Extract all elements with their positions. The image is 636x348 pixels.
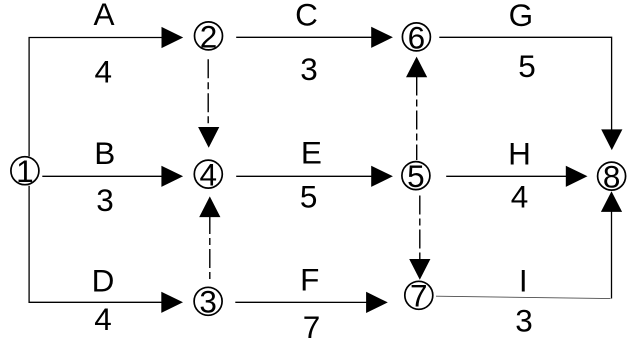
- svg-text:7: 7: [410, 278, 428, 314]
- svg-text:2: 2: [200, 18, 218, 54]
- svg-text:E: E: [301, 135, 322, 171]
- svg-text:B: B: [94, 135, 115, 171]
- svg-text:4: 4: [511, 179, 529, 215]
- svg-text:6: 6: [408, 19, 426, 55]
- svg-text:H: H: [508, 135, 531, 171]
- svg-text:3: 3: [300, 51, 318, 87]
- svg-text:D: D: [92, 263, 115, 299]
- svg-text:3: 3: [96, 182, 114, 218]
- svg-text:8: 8: [603, 159, 621, 195]
- svg-text:A: A: [93, 0, 114, 32]
- svg-text:F: F: [300, 261, 319, 297]
- svg-text:4: 4: [200, 157, 218, 193]
- svg-text:3: 3: [199, 284, 217, 320]
- svg-text:G: G: [509, 0, 534, 33]
- svg-text:5: 5: [300, 178, 318, 214]
- svg-text:3: 3: [515, 303, 533, 339]
- svg-text:4: 4: [94, 301, 112, 337]
- svg-text:I: I: [519, 262, 528, 298]
- svg-text:7: 7: [303, 309, 321, 345]
- svg-text:C: C: [295, 0, 318, 33]
- svg-text:5: 5: [407, 158, 425, 194]
- svg-text:4: 4: [95, 54, 113, 90]
- svg-text:5: 5: [518, 48, 536, 84]
- svg-text:1: 1: [16, 153, 34, 189]
